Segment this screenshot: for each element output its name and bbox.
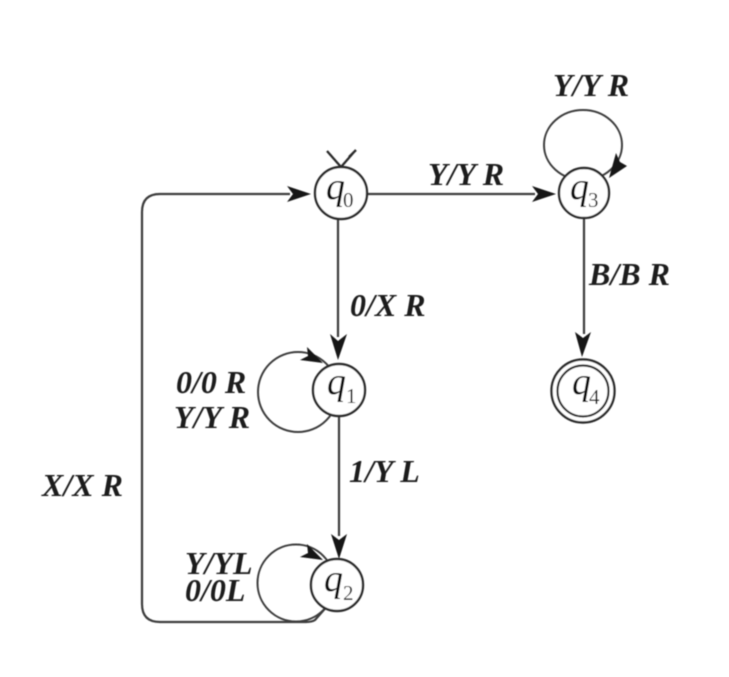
svg-text:q: q	[570, 166, 589, 208]
svg-text:X/X R: X/X R	[41, 467, 123, 503]
svg-text:0/0 R: 0/0 R	[176, 364, 246, 400]
svg-text:0: 0	[343, 188, 354, 212]
svg-text:Y/Y R: Y/Y R	[553, 67, 629, 103]
svg-text:2: 2	[343, 581, 354, 605]
svg-text:4: 4	[589, 385, 600, 409]
svg-text:q: q	[324, 558, 343, 600]
svg-text:q: q	[327, 361, 346, 403]
svg-text:1/Y L: 1/Y L	[349, 453, 420, 489]
svg-text:Y/Y R: Y/Y R	[428, 156, 504, 192]
svg-text:B/B R: B/B R	[588, 256, 670, 292]
svg-text:0/0L: 0/0L	[185, 572, 245, 608]
svg-text:Y/Y R: Y/Y R	[174, 399, 250, 435]
svg-text:1: 1	[346, 384, 357, 408]
svg-text:3: 3	[588, 188, 599, 212]
svg-text:0/X R: 0/X R	[350, 287, 426, 323]
